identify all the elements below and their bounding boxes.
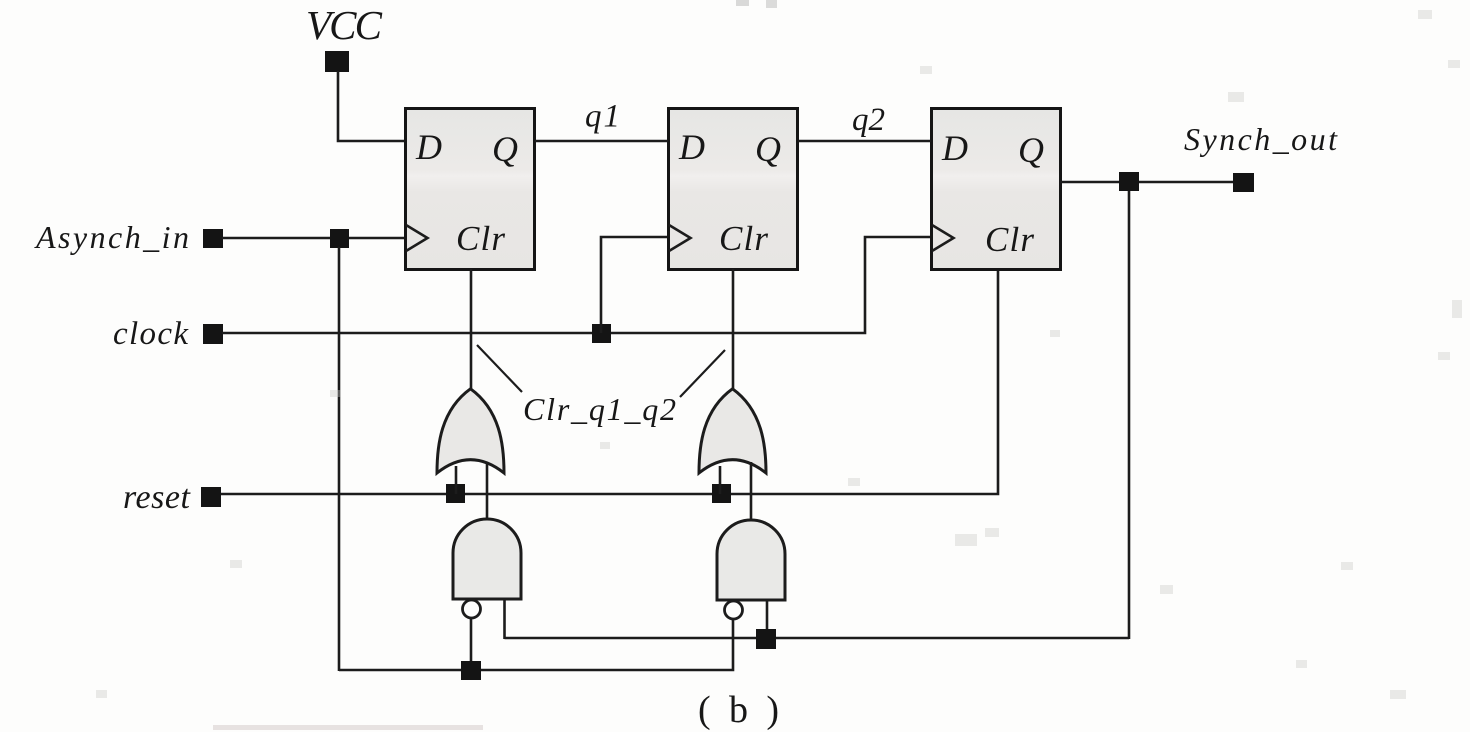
svg-text:q2: q2 <box>852 102 885 138</box>
wire Asynch_in to FF1 clock pin <box>222 237 405 240</box>
wire clock branch to FF2 clock pin <box>601 237 668 333</box>
wire AND1 output to OR1 right input <box>486 462 489 521</box>
svg-text:Q: Q <box>492 129 518 169</box>
svg-text:Clr: Clr <box>456 219 505 258</box>
wire OR1 left input to reset line <box>455 466 458 494</box>
wire FF3 Q to Synch_out pad <box>1060 181 1234 184</box>
svg-text:Q: Q <box>1018 130 1044 170</box>
svg-text:(b): (b) <box>698 689 779 731</box>
AND gate G3 (with inverted input bubble) <box>453 519 521 599</box>
OR gate G1 <box>437 389 504 473</box>
G3 input bubble <box>463 600 481 618</box>
wire Synch_out feedback vertical <box>1128 191 1131 639</box>
svg-text:Synch_out: Synch_out <box>1184 121 1338 157</box>
flip-flop FF3 body <box>932 109 1061 270</box>
wire FF2 Clr pin to OR2 output <box>732 269 735 392</box>
junction NAND1 inverted input on feedback line <box>461 661 481 680</box>
junction reset to OR1 <box>446 484 465 503</box>
svg-text:clock: clock <box>113 316 189 352</box>
svg-text:reset: reset <box>123 479 192 516</box>
input pad clock <box>203 324 223 344</box>
wire OR2 left input to reset line <box>719 466 722 494</box>
junction clock branch <box>592 324 611 343</box>
wire G3 plain input drop <box>503 599 506 639</box>
FF3 clock triangle <box>932 225 954 251</box>
junction Synch_out feedback <box>1119 172 1139 191</box>
power pad VCC <box>325 51 349 72</box>
svg-text:Clr: Clr <box>985 220 1034 259</box>
FF1 clock triangle <box>406 225 428 251</box>
svg-text:Q: Q <box>755 129 781 169</box>
svg-text:Asynch_in: Asynch_in <box>34 219 189 255</box>
wire VCC to FF1 D input <box>338 71 405 141</box>
output pad Synch_out <box>1233 173 1254 192</box>
wire clock main line to FF3 clock pin <box>222 237 931 333</box>
wire reset line to FF3 Clr pin <box>221 269 998 494</box>
svg-text:D: D <box>415 127 442 167</box>
flip-flop FF1 body <box>406 109 535 270</box>
svg-text:Clr: Clr <box>719 219 768 258</box>
junction NAND2 plain input on feedback line <box>756 629 776 649</box>
callout line right to FF2 Clr wire <box>680 350 725 397</box>
svg-text:Clr_q1_q2: Clr_q1_q2 <box>523 391 676 427</box>
flip-flop FF2 body <box>669 109 798 270</box>
FF2 clock triangle <box>669 225 691 251</box>
wire FF1 Clr pin to OR1 output <box>470 269 473 394</box>
wire net q1 FF1.Q to FF2.D <box>535 140 668 143</box>
wire NAND1 inverted input drop <box>470 619 473 671</box>
input pad Asynch_in <box>203 229 223 248</box>
scan smudge top <box>736 0 749 6</box>
wire AND2 output to OR2 right input <box>750 462 753 521</box>
input pad reset <box>201 487 221 507</box>
svg-text:D: D <box>678 127 705 167</box>
scan smudge bottom-left <box>213 725 483 730</box>
AND gate G4 (with inverted input bubble) <box>717 520 785 600</box>
wire bottom feedback horizontal to NAND2 inverted input <box>339 619 733 670</box>
junction reset to OR2 <box>712 484 731 503</box>
wire G4 plain input drop <box>766 600 769 639</box>
wire Synch_out feedback horizontal to NAND inputs <box>505 637 1130 640</box>
wire net q2 FF2.Q to FF3.D <box>798 140 931 143</box>
junction on Asynch_in net <box>330 229 349 248</box>
G4 input bubble <box>725 601 743 619</box>
wire Asynch_in feedback vertical <box>338 247 341 671</box>
svg-text:VCC: VCC <box>306 2 383 48</box>
OR gate G2 <box>699 389 766 473</box>
callout line left to Clr wire <box>477 345 522 392</box>
svg-text:D: D <box>941 128 968 168</box>
